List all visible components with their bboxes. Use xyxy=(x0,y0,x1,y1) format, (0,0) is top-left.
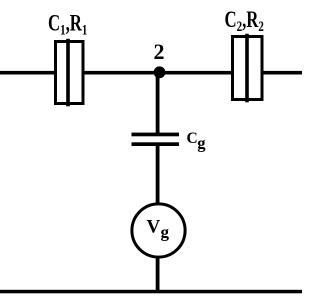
tunnel junction C1,R1 xyxy=(56,39,84,107)
tunnel junction C2,R2 xyxy=(233,34,263,103)
svg-text:g: g xyxy=(197,134,206,153)
label C1,R1 xyxy=(48,11,87,38)
svg-text:C: C xyxy=(187,130,198,147)
svg-text:C2,R2: C2,R2 xyxy=(225,8,264,35)
label Vg xyxy=(147,217,170,242)
capacitor Cg bottom plate xyxy=(132,142,180,146)
ground rail xyxy=(0,290,302,294)
label Cg xyxy=(187,130,207,152)
svg-text:C1,R1: C1,R1 xyxy=(48,11,87,38)
svg-text:V: V xyxy=(147,217,161,238)
wire between left junction and node 2 xyxy=(83,71,232,75)
wire right lead xyxy=(262,71,303,75)
capacitor Cg top plate xyxy=(132,133,180,137)
svg-text:2: 2 xyxy=(154,39,165,64)
wire source to ground rail xyxy=(156,256,160,292)
node 2 junction dot xyxy=(154,66,166,78)
voltage source Vg xyxy=(132,204,185,257)
label C2,R2 xyxy=(225,8,264,35)
wire capacitor to source xyxy=(156,145,160,204)
wire node to capacitor xyxy=(156,72,160,135)
svg-text:g: g xyxy=(161,222,170,241)
wire left lead xyxy=(0,71,56,75)
